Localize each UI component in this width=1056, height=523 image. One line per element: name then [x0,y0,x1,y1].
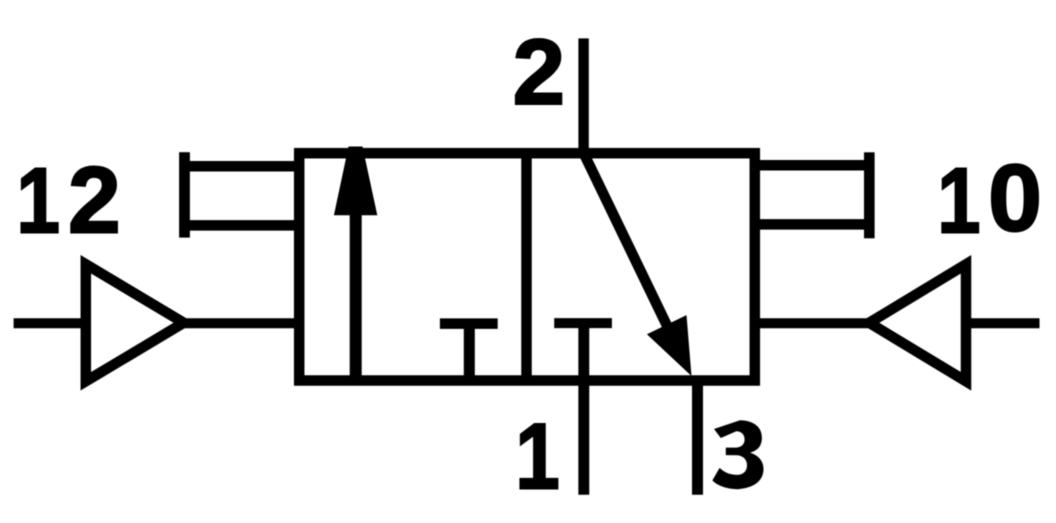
label 3 [712,420,763,489]
port 3 line [692,377,703,495]
pilot actuation triangle right [869,264,966,381]
pilot line left outer segment [14,318,86,328]
port 2 line [578,38,588,156]
svg-text:2: 2 [513,20,565,124]
label 12 digit one [16,149,60,253]
port 1 line (also stem of blocked symbol right square) [578,323,589,495]
flow path 2->3 diagonal (right square) [584,153,670,332]
blocked port symbol (left square, port 3 position) [440,318,498,329]
pilot port 12 upper line [185,161,295,172]
pilot port 10 upper line [760,160,869,171]
svg-text:0: 0 [988,146,1042,252]
pilot port 10 lower line [760,219,869,230]
svg-text:1: 1 [16,149,60,253]
pilot port 12 bracket bar [179,152,190,237]
flow arrow 1->2 head [334,147,377,216]
label 2 [513,20,565,124]
position divider [521,148,532,386]
label 10 digit one [937,149,980,253]
label 12 digit two [68,147,121,253]
svg-text:1: 1 [937,149,980,253]
pilot line right inner segment [760,318,875,328]
pilot line left inner segment [180,318,294,328]
pilot line right outer segment [966,318,1040,328]
label 1 [515,404,560,508]
pilot port 12 lower line [185,220,295,231]
svg-text:1: 1 [515,404,560,508]
svg-text:2: 2 [68,147,121,253]
blocked port symbol bar (right square, port 1) [554,318,612,328]
pilot port 10 bracket bar [864,152,875,238]
label 10 digit zero [988,146,1042,252]
flow path 2->3 arrowhead [647,315,692,376]
valve body outline (two-position box) [299,153,755,380]
flow arrow 1->2 (left square) stem [350,210,362,381]
pilot actuation triangle left [86,264,184,381]
